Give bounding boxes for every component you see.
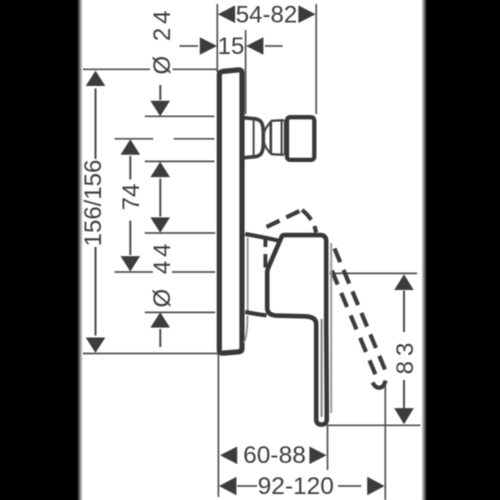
connector nub (244, 118, 263, 158)
grip inner gray line (321, 319, 323, 417)
arrow O24 upper (150, 101, 170, 116)
dashed grip back line (335, 249, 386, 370)
arrow 54-82 right (298, 5, 315, 23)
svg-text:Ø 44: Ø 44 (149, 239, 176, 307)
stem 83 (403, 291, 405, 333)
extension line top of plate (78, 68, 150, 70)
grip outer gray line (330, 243, 332, 413)
leader line 92-120 right (338, 485, 361, 487)
svg-text:60-88: 60-88 (243, 442, 306, 469)
extension line plate front down (217, 354, 219, 498)
connector ring left edge (269, 121, 272, 154)
arrow 156 bottom (86, 338, 106, 353)
arrow 156 top (86, 71, 106, 86)
arrow O44 upper (150, 217, 170, 232)
extension line 83 top (330, 272, 418, 274)
plate escutcheon (219, 70, 242, 353)
connector nub inner line (253, 120, 255, 155)
svg-text:15: 15 (218, 33, 245, 60)
extension line v3 connector end (315, 4, 317, 114)
stem 74 (129, 156, 131, 180)
leader line 92-120 left (237, 485, 257, 487)
arrow O24 lower (150, 162, 170, 177)
arrow 92-120 right (367, 477, 384, 496)
connector ring right edge b (284, 120, 286, 155)
extension line hub bottom (145, 311, 215, 313)
extension line hub top (145, 232, 215, 234)
svg-text:92-120: 92-120 (258, 473, 334, 500)
extension line 83 bottom (327, 424, 421, 426)
connector cylinder (287, 117, 314, 160)
dashed grip front line (332, 271, 376, 375)
arrow 83 top (394, 274, 414, 290)
arrow O44 lower (150, 312, 170, 327)
leader line 15 right (265, 45, 283, 47)
connector flare upper (264, 122, 271, 133)
extension line connector bottom (145, 160, 215, 162)
svg-text:74: 74 (118, 184, 145, 211)
extension line bottom of plate (77, 353, 219, 355)
arrow 74 bottom (121, 256, 141, 271)
stem 156/156 (95, 89, 97, 160)
center line connector (115, 138, 154, 140)
dashed lever top edge (267, 211, 300, 227)
extension line v2 plate back (245, 30, 247, 114)
arrow 60-88 right (309, 447, 326, 465)
arrow 15 left (200, 37, 217, 55)
svg-text:54-82: 54-82 (236, 1, 297, 28)
arrow 60-88 left (220, 447, 237, 465)
svg-text:Ø 24: Ø 24 (149, 6, 176, 74)
arrow 54-82 left (218, 5, 235, 23)
hub base thin line (247, 238, 249, 311)
leader line 15 left (180, 45, 199, 47)
svg-text:83: 83 (392, 338, 419, 375)
hub base tail (244, 316, 248, 343)
extension line grip down (327, 425, 329, 470)
extension line v1 plate front (216, 4, 218, 72)
extension line connector top (145, 115, 215, 117)
connector ring bottom (271, 153, 284, 156)
center line hub (114, 271, 152, 273)
arrow 83 bottom (394, 408, 414, 424)
dashed grip tip cap (373, 381, 386, 388)
handle block and grip (267, 235, 327, 425)
dashed lever corner (302, 210, 316, 233)
hub bottom curve (245, 312, 266, 316)
svg-text:156/156: 156/156 (80, 160, 107, 247)
connector flare lower (264, 142, 271, 153)
arrow 92-120 left (219, 477, 236, 496)
arrow 74 top (121, 139, 141, 154)
dashed lever front edge (263, 239, 267, 268)
stem O24/O44 (159, 85, 161, 100)
arrow 15 right (246, 37, 263, 55)
extension line dashed tip down (384, 386, 386, 500)
connector ring right edge a (281, 120, 283, 155)
connector ring top (271, 119, 284, 122)
hub top curve (245, 234, 278, 240)
